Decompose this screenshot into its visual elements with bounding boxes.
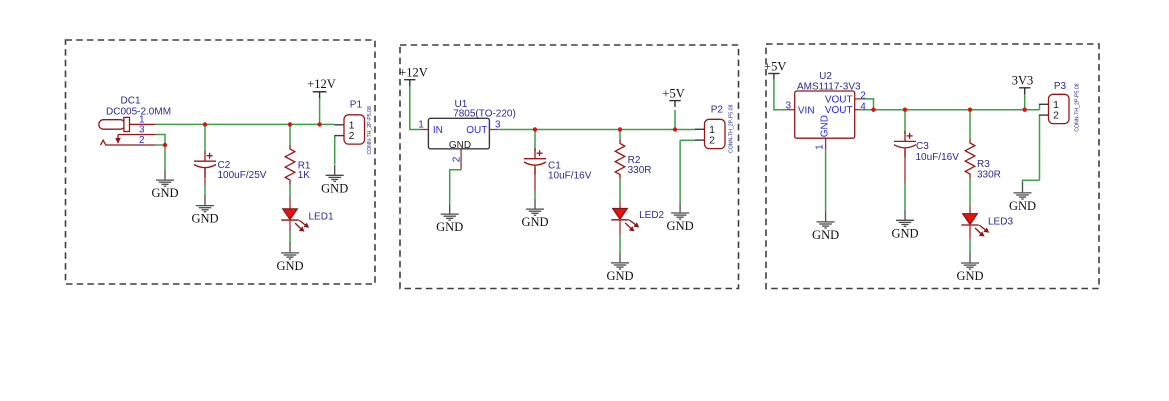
- svg-text:3: 3: [495, 119, 501, 130]
- svg-text:2: 2: [451, 156, 462, 162]
- svg-text:GND: GND: [449, 140, 471, 151]
- svg-text:CONN-TH_2P-P5.08: CONN-TH_2P-P5.08: [728, 104, 734, 153]
- svg-text:DC1: DC1: [121, 95, 141, 106]
- svg-text:+12V: +12V: [399, 66, 428, 80]
- svg-text:2: 2: [139, 135, 145, 146]
- svg-text:DC005-2.0MM: DC005-2.0MM: [106, 107, 171, 118]
- svg-text:LED1: LED1: [309, 211, 334, 222]
- svg-text:+12V: +12V: [307, 77, 336, 91]
- svg-text:IN: IN: [433, 125, 443, 136]
- svg-text:VOUT: VOUT: [825, 105, 853, 116]
- svg-text:3: 3: [786, 101, 792, 112]
- svg-text:AMS1117-3V3: AMS1117-3V3: [797, 82, 861, 93]
- svg-text:P2: P2: [711, 104, 724, 115]
- svg-text:LED3: LED3: [988, 216, 1013, 227]
- svg-text:2: 2: [860, 91, 866, 102]
- svg-text:P1: P1: [350, 99, 363, 110]
- svg-text:10uF/16V: 10uF/16V: [548, 170, 592, 181]
- svg-text:100uF/25V: 100uF/25V: [218, 170, 267, 181]
- svg-text:10uF/16V: 10uF/16V: [916, 152, 960, 163]
- svg-text:R3: R3: [977, 159, 990, 170]
- svg-text:1: 1: [814, 144, 825, 150]
- svg-text:3V3: 3V3: [1012, 74, 1034, 88]
- svg-text:7805(TO-220): 7805(TO-220): [453, 108, 516, 119]
- svg-text:OUT: OUT: [466, 125, 487, 136]
- svg-text:1K: 1K: [298, 170, 311, 181]
- svg-text:U2: U2: [819, 71, 832, 82]
- svg-text:330R: 330R: [977, 169, 1001, 180]
- svg-text:+5V: +5V: [764, 59, 786, 73]
- svg-text:CONN-TH_2P-P5.08: CONN-TH_2P-P5.08: [1074, 83, 1080, 132]
- svg-text:P3: P3: [1054, 81, 1067, 92]
- svg-text:4: 4: [860, 101, 866, 112]
- svg-text:C3: C3: [916, 141, 929, 152]
- svg-text:LED2: LED2: [639, 210, 664, 221]
- svg-text:1: 1: [418, 120, 424, 131]
- svg-text:3: 3: [139, 125, 145, 136]
- svg-text:VIN: VIN: [798, 105, 815, 116]
- svg-text:CONN-TH_2P-P5.08: CONN-TH_2P-P5.08: [367, 106, 373, 155]
- svg-text:330R: 330R: [628, 165, 652, 176]
- svg-text:GND: GND: [820, 115, 831, 137]
- svg-text:+5V: +5V: [662, 86, 684, 100]
